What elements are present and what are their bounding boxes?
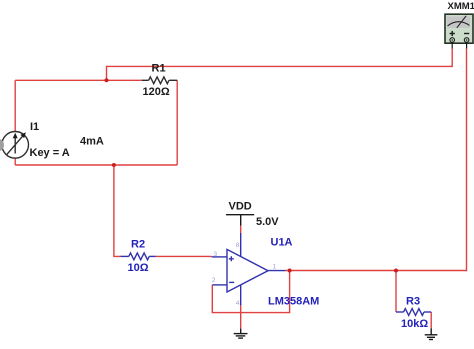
wire: bottom rail xyxy=(15,164,177,166)
ground under op-amp xyxy=(234,329,248,339)
wire: XMM1 minus terminal down to output net xyxy=(286,49,467,271)
svg-text:2: 2 xyxy=(212,277,216,284)
wire: output junction down to R3 xyxy=(395,271,397,313)
svg-text:4mA: 4mA xyxy=(80,136,104,148)
wire: op-amp pin4 to ground xyxy=(240,305,242,328)
junction at bottom rail R2 branch xyxy=(112,163,116,167)
svg-text:R3: R3 xyxy=(406,296,420,308)
wire: branch down to R2 xyxy=(114,165,120,256)
svg-text:8: 8 xyxy=(236,242,240,249)
wire: R1 left segment xyxy=(15,79,142,81)
svg-text:5.0V: 5.0V xyxy=(256,216,279,228)
svg-text:U1A: U1A xyxy=(271,236,293,248)
wire: feedback loop output to inverting input xyxy=(212,271,289,313)
power VDD symbol xyxy=(226,215,254,226)
resistor R2 xyxy=(120,253,156,260)
wire: XMM1 plus terminal to R1 top net xyxy=(107,49,453,81)
svg-text:R1: R1 xyxy=(152,63,166,75)
junction at op-amp output feedback tap xyxy=(288,269,292,273)
svg-text:LM358AM: LM358AM xyxy=(268,295,319,307)
svg-text:10Ω: 10Ω xyxy=(128,262,149,274)
svg-text:VDD: VDD xyxy=(229,201,252,213)
svg-text:Key = A: Key = A xyxy=(30,147,70,159)
resistor R3 xyxy=(396,309,431,316)
wire: VDD to pin8 segment xyxy=(240,226,242,234)
ground under R3 xyxy=(425,328,438,339)
resistor R1 xyxy=(142,77,177,84)
wire: left loop vertical to I1 top xyxy=(14,80,16,131)
svg-text:4: 4 xyxy=(236,300,240,307)
junction at output R3 branch xyxy=(394,269,398,273)
svg-text:1: 1 xyxy=(273,264,277,271)
wire: I1 bottom to bottom rail xyxy=(14,158,16,165)
junction at R1 net and meter tap xyxy=(105,78,109,82)
svg-text:10kΩ: 10kΩ xyxy=(401,318,428,330)
gray clipped shape at left edge xyxy=(0,139,4,152)
svg-text:XMM1: XMM1 xyxy=(448,1,474,12)
svg-text:I1: I1 xyxy=(30,121,39,133)
wire: R2 to op-amp plus input xyxy=(156,255,212,257)
svg-text:3: 3 xyxy=(214,251,218,258)
current source I1 xyxy=(2,132,29,159)
svg-text:R2: R2 xyxy=(131,239,145,251)
op-amp U1A xyxy=(212,233,286,305)
svg-text:120Ω: 120Ω xyxy=(143,86,170,98)
multimeter XMM1 xyxy=(445,14,473,48)
wire: right loop vertical from R1 down xyxy=(176,80,178,165)
wire: R3 right lead to ground xyxy=(430,312,432,328)
